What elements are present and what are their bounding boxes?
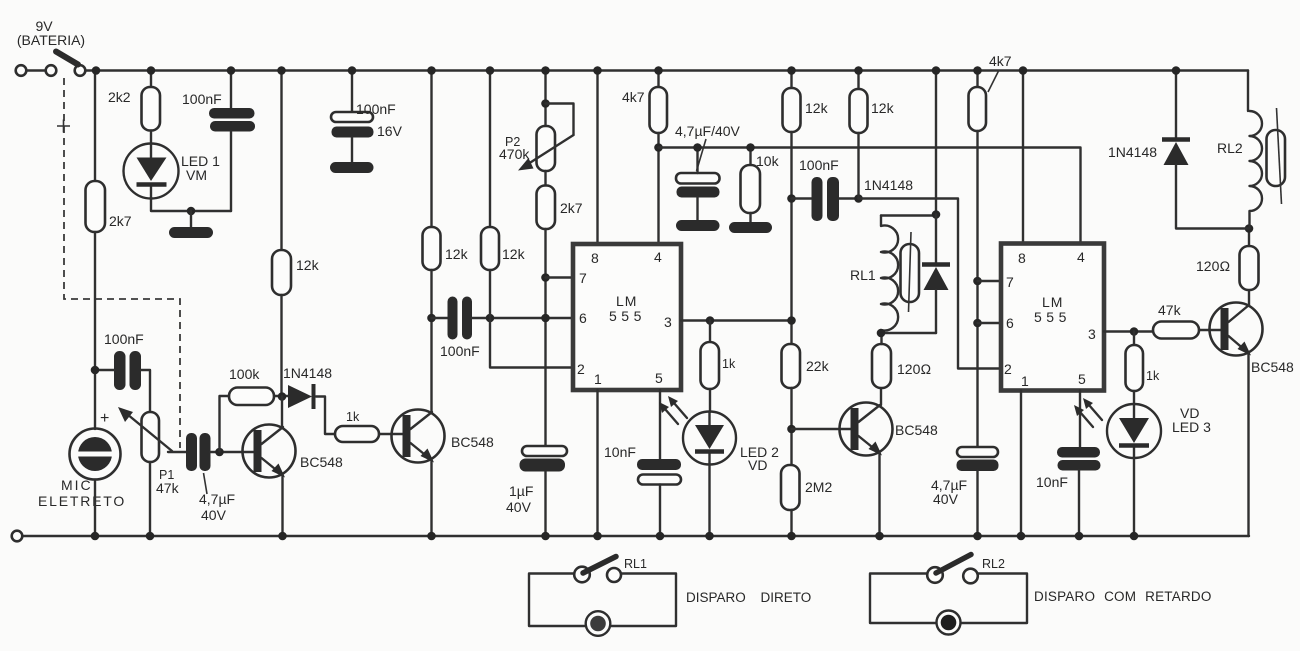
capacitor 100nF osc (440, 297, 480, 360)
wire Q3 emitter to rail (878, 453, 880, 536)
wire RL1 bottom (881, 332, 936, 334)
resistor 12k input stage (272, 250, 291, 295)
LED2 emission arrows (659, 396, 687, 424)
junction dot pin7 (541, 273, 550, 282)
wire LED3 to rail (1133, 458, 1135, 536)
wire 4k7 down to cap (976, 131, 978, 447)
microphone MIC ELETRETO (38, 410, 126, 509)
resistor 2k7 (86, 181, 106, 232)
svg-text:22k: 22k (806, 358, 830, 374)
potentiometer P1 47k (142, 412, 160, 462)
svg-text:BC548: BC548 (895, 422, 938, 438)
resistor 22k (782, 344, 801, 388)
svg-text:8: 8 (1018, 250, 1026, 266)
svg-text:12k: 12k (871, 100, 895, 116)
junction dot RL1 bottom (877, 329, 886, 338)
wire 1k to LED2 (709, 389, 711, 412)
wire 10k to ground bar (749, 213, 751, 222)
diode flyback RL2 (1108, 71, 1249, 229)
svg-text:RL1: RL1 (850, 267, 876, 283)
diode D1 1N4148 (283, 365, 332, 409)
LED2 VD (683, 412, 779, 474)
wire 2k7 to mic (94, 232, 96, 429)
junction dot output U2 (1130, 327, 1139, 336)
resistor 12k osc A (423, 227, 441, 270)
resistor 120R (RL1) (872, 344, 891, 388)
svg-text:40V: 40V (933, 491, 959, 507)
wire cap to ground bar (696, 198, 698, 221)
capacitor 100nF (trigger) (799, 157, 839, 221)
ground bar under 100nF 16V (330, 162, 374, 173)
battery terminal 1 (16, 65, 27, 76)
wire P2 to 2k7 (544, 171, 546, 186)
junction dot reset line (654, 143, 663, 152)
wire rail to 12k (osc B) (489, 71, 491, 228)
junction dot RL1 top (932, 210, 941, 219)
wire switch to rail (86, 69, 97, 71)
potentiometer P2 470k (499, 126, 574, 171)
junction dot 100nF left (787, 194, 796, 203)
svg-text:5: 5 (1078, 371, 1086, 387)
wire 12k down through nodes (790, 132, 792, 344)
wire 100k left to base (220, 396, 230, 452)
wire base node to Q3 (792, 428, 851, 430)
wire cap to rail (976, 471, 978, 536)
svg-text:3: 3 (1088, 326, 1096, 342)
capacitor 10nF (pin5 U1) (604, 444, 681, 485)
resistor 2M2 (781, 465, 800, 510)
junction dot pin3 line (787, 316, 796, 325)
svg-text:LM: LM (616, 293, 637, 309)
wire P1 to bottom rail (149, 462, 151, 536)
wire Q4 collector to 120R (1248, 290, 1250, 305)
capacitor 100nF mic coupling (104, 331, 144, 390)
wire 12k B to node (489, 270, 491, 318)
wire Q1 emitter to rail (281, 475, 283, 536)
svg-text:555: 555 (1034, 309, 1071, 325)
svg-text:LED 3: LED 3 (1172, 419, 1211, 435)
wire 1k to Q2 base (379, 433, 403, 435)
svg-text:6: 6 (579, 310, 587, 326)
svg-text:4,7µF/40V: 4,7µF/40V (675, 123, 741, 139)
junction dot pin6 U2 (973, 319, 982, 328)
svg-text:DISPARO DIRETO: DISPARO DIRETO (686, 590, 811, 605)
svg-text:5: 5 (655, 370, 663, 386)
bottom rail terminal (12, 531, 23, 542)
svg-text:RL2: RL2 (982, 557, 1005, 571)
svg-text:MIC: MIC (61, 477, 93, 493)
wire 12k B down (857, 133, 859, 199)
junction dot 10k (746, 143, 755, 152)
resistor 1k (Q2 base) (335, 426, 379, 442)
svg-text:100nF: 100nF (799, 157, 839, 173)
relay RL2 coil (1217, 71, 1262, 229)
svg-text:100nF: 100nF (182, 91, 222, 107)
svg-text:4: 4 (1077, 249, 1085, 265)
svg-text:(BATERIA): (BATERIA) (17, 32, 85, 48)
capacitor 4,7uF 40V mic coupling (186, 433, 235, 523)
capacitor 1uF 40V (506, 446, 567, 515)
LED1 VM (124, 144, 221, 199)
svg-text:100k: 100k (229, 366, 260, 382)
wire pin7 U1 (546, 276, 574, 278)
relay RL2 reed capsule (1267, 108, 1286, 204)
ground bar under 10k (729, 222, 772, 233)
svg-text:2k7: 2k7 (109, 213, 132, 229)
wire rail to 4k7 (657, 71, 659, 88)
svg-text:12k: 12k (805, 100, 829, 116)
transistor Q1 BC548 (243, 425, 344, 478)
junction dot Q3 base (787, 425, 796, 434)
svg-text:40V: 40V (201, 507, 227, 523)
junction dot collector/100k/diode (278, 392, 287, 401)
wire 4k7 to pin4 U1 (657, 133, 659, 244)
wire 100nF to 12k B node (839, 197, 859, 199)
wire reset line to U2 pin4 (659, 148, 1081, 244)
wire top supply rail (96, 69, 1248, 71)
wire rail to 4k7 (U2 timing) (976, 71, 978, 88)
wire rail to 2k2 (150, 71, 152, 88)
relay RL1 coil (850, 71, 936, 334)
transistor Q4 BC548 (1210, 303, 1295, 376)
resistor 12k trigger B (850, 89, 868, 133)
junction dots top rail (92, 66, 1181, 75)
wire 10nF to rail (659, 485, 661, 537)
svg-text:BC548: BC548 (300, 454, 343, 470)
junction dot mic/cap (91, 366, 100, 375)
LED3 VD (1107, 404, 1211, 458)
svg-text:1k: 1k (1146, 369, 1160, 383)
svg-text:+: + (100, 410, 109, 427)
junction dot pin6/12k (486, 314, 495, 323)
wire cap to ground bar (351, 138, 353, 163)
wire LED2 to rail (708, 465, 710, 537)
wire 120R to RL1 (880, 333, 882, 344)
svg-text:12k: 12k (296, 257, 320, 273)
wire mic to bottom rail (94, 480, 96, 537)
svg-text:470k: 470k (499, 146, 530, 162)
P1 wiper arrow (118, 407, 172, 451)
svg-text:47k: 47k (156, 480, 180, 496)
plus mark on dashed line (57, 120, 70, 133)
resistor 120R (RL2) (1240, 246, 1259, 290)
wire mic node to cap (95, 369, 114, 371)
wire rail to pin8 U2 (1022, 71, 1024, 244)
wire node to cap (432, 317, 449, 319)
wire 2M2 to rail (790, 510, 792, 536)
svg-text:10nF: 10nF (1036, 474, 1068, 490)
wire between battery terminals (27, 69, 46, 71)
dashed shield / battery negative run (64, 78, 180, 448)
resistor 1k (LED2) (701, 342, 720, 389)
resistor 10k (741, 165, 761, 213)
svg-text:LM: LM (1042, 294, 1063, 310)
wire 100k right to collector node (274, 395, 288, 397)
wire rail to pin8 U1 (596, 71, 598, 245)
op IC U1 LM555 (573, 244, 681, 390)
relay contact RL2 box (870, 555, 1212, 635)
wire pin3 U1 output (681, 319, 792, 321)
transistor Q3 BC548 (840, 403, 939, 456)
switch S1 lever (56, 52, 78, 65)
junction dot P2 wiper loop (541, 99, 550, 108)
wire pin7 U2 (978, 280, 1002, 282)
wire rail node to cap (696, 148, 698, 174)
svg-text:3: 3 (664, 314, 672, 330)
wire cap to Q1 base node (211, 451, 254, 453)
wire pin1 U2 to rail (1020, 391, 1022, 537)
junction dot 12k/cap/collector (427, 314, 436, 323)
svg-text:VD: VD (748, 457, 767, 473)
svg-text:1µF: 1µF (509, 483, 533, 499)
wire 2k2 to LED1 (150, 131, 152, 145)
junction dot RL2 bottom (1245, 224, 1254, 233)
svg-text:RL1: RL1 (624, 557, 647, 571)
wire cap to P1 (141, 370, 150, 412)
svg-text:DISPARO COM RETARDO: DISPARO COM RETARDO (1034, 589, 1212, 604)
wire Q4 emitter to rail (1247, 353, 1249, 536)
wire 22k to base node (790, 388, 792, 465)
resistor 12k osc B (481, 227, 499, 270)
svg-text:2: 2 (577, 361, 585, 377)
wire pin5 U2 to 10nF (1079, 391, 1081, 448)
resistor 2k7 (osc) (537, 186, 556, 230)
svg-text:100nF: 100nF (104, 331, 144, 347)
svg-text:ELETRETO: ELETRETO (38, 493, 126, 509)
svg-text:10nF: 10nF (604, 444, 636, 460)
switch S1 contact (75, 65, 86, 76)
svg-text:8: 8 (591, 250, 599, 266)
resistor 1k (LED3) (1126, 345, 1144, 391)
svg-text:12k: 12k (502, 246, 526, 262)
wire 12k to collector node (280, 295, 282, 397)
wire 10nF U2 to rail (1078, 471, 1080, 537)
svg-text:6: 6 (1006, 315, 1014, 331)
LED3 emission arrows (1074, 398, 1102, 427)
wire rail to 2k7 (94, 71, 96, 182)
wire 12k to node (430, 270, 432, 318)
svg-text:555: 555 (609, 308, 646, 324)
wire node to 1k (709, 321, 711, 343)
svg-text:4k7: 4k7 (622, 89, 645, 105)
junction dot 1k LED2 (706, 316, 715, 325)
resistor 47k (1153, 322, 1199, 339)
wire trigger node to U2 pin2 (859, 199, 1002, 369)
wire rail to 12k (input stage) (280, 71, 282, 251)
P2 wiper loop wire (546, 104, 574, 136)
svg-text:120Ω: 120Ω (897, 361, 931, 377)
junction dot pin6 (541, 314, 550, 323)
junction dot LED1/cap (187, 207, 196, 216)
transistor Q2 BC548 (392, 410, 495, 463)
svg-text:40V: 40V (506, 499, 532, 515)
wire pin3 U2 output (1104, 330, 1153, 332)
wire diode to 1k (316, 397, 335, 435)
junction dot Q1 base (215, 448, 224, 457)
wire 2k7 to pins 7/6 and 1uF (544, 229, 546, 446)
capacitor 100nF (LED filter) (209, 108, 255, 119)
svg-text:VM: VM (186, 167, 207, 183)
ground stub under LED1 (190, 211, 192, 227)
wire 1uF to rail (544, 472, 546, 537)
wire rail to 100nF (230, 71, 232, 109)
relay RL1 reed capsule (901, 232, 920, 312)
wire 47k to Q4 base (1199, 329, 1221, 331)
wire 1k to LED3 (1133, 391, 1135, 405)
wire Q3 collector to 120R (880, 388, 882, 405)
battery terminal 2 (46, 65, 57, 76)
junction dots bottom rail (91, 532, 1139, 541)
resistor 4k7 timing (969, 87, 987, 131)
capacitor 10nF (pin5 U2) (1036, 447, 1101, 490)
wire wiper to 4,7uF (168, 451, 186, 453)
resistor 100k (229, 388, 274, 406)
svg-text:BC548: BC548 (1251, 359, 1294, 375)
wire LED1 to junction (151, 199, 231, 212)
ground bar under LED1 (169, 227, 213, 238)
svg-text:1: 1 (1021, 373, 1029, 389)
svg-text:7: 7 (1006, 274, 1014, 290)
wire 100nF down to junction (230, 132, 232, 212)
wire node to 1k LED3 (1133, 332, 1135, 346)
svg-text:4k7: 4k7 (989, 53, 1012, 69)
svg-text:1: 1 (594, 371, 602, 387)
wire rail to 12k (osc A) (430, 71, 432, 228)
wire pin5 U1 to 10nF (659, 390, 661, 459)
svg-text:16V: 16V (377, 123, 403, 139)
diode flyback RL1 (922, 215, 950, 334)
capacitor 4,7uF/40V reset (675, 123, 741, 198)
svg-text:10k: 10k (756, 153, 780, 169)
svg-text:1N4148: 1N4148 (283, 365, 332, 381)
op IC U2 LM555 (1001, 244, 1104, 391)
wire bottom 0V rail (23, 535, 1250, 537)
wire rail to 100nF 16V (351, 71, 353, 113)
junction dot 4,7uF (693, 143, 702, 152)
relay contact RL1 box (529, 557, 811, 636)
svg-text:4: 4 (654, 249, 662, 265)
wire Q2 emitter to rail (430, 460, 432, 536)
wire cap to pin6 run (472, 317, 573, 319)
wire node to 100nF (792, 197, 812, 199)
svg-text:120Ω: 120Ω (1196, 258, 1230, 274)
ground bar under 4,7uF (676, 220, 720, 231)
svg-text:2: 2 (1004, 361, 1012, 377)
svg-text:1N4148: 1N4148 (1108, 144, 1157, 160)
svg-text:100nF: 100nF (440, 343, 480, 359)
capacitor 4,7uF timing (931, 447, 999, 507)
svg-text:1N4148: 1N4148 (864, 177, 913, 193)
wire Q1 collector (281, 397, 283, 428)
wire rail to 12k (U2 trigger) (790, 71, 792, 89)
svg-text:BC548: BC548 (451, 434, 494, 450)
wire rail to P2 (544, 71, 546, 127)
svg-text:100nF: 100nF (356, 101, 396, 117)
svg-text:12k: 12k (445, 246, 469, 262)
wire rail to 12k trigger B (857, 71, 859, 90)
resistor 4k7 (reset line) (650, 87, 668, 133)
wire node to 10k (749, 148, 751, 166)
svg-text:47k: 47k (1158, 302, 1182, 318)
wire pin2 U1 (490, 318, 573, 368)
resistor 12k trigger A (783, 88, 801, 132)
svg-text:2k2: 2k2 (108, 89, 131, 105)
wire 120R to RL2 node (1248, 229, 1250, 247)
svg-text:4,7µF: 4,7µF (199, 491, 235, 507)
wire Q2 collector up (430, 318, 432, 412)
junction dot trigger node (854, 194, 863, 203)
capacitor 100nF 16V (331, 101, 403, 139)
svg-text:1k: 1k (346, 410, 360, 424)
svg-text:2M2: 2M2 (805, 479, 832, 495)
svg-text:RL2: RL2 (1217, 140, 1243, 156)
wire pin1 U1 to rail (596, 390, 598, 536)
wire pin6 U2 (978, 322, 1002, 324)
svg-text:7: 7 (579, 270, 587, 286)
resistor 2k2 (142, 87, 161, 131)
svg-text:2k7: 2k7 (560, 200, 583, 216)
junction dot pin7 U2 (973, 277, 982, 286)
svg-text:1k: 1k (722, 357, 736, 371)
